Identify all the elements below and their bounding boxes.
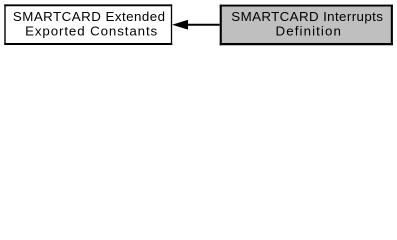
N1 left border bbox=[220, 5, 222, 46]
N2 top border bbox=[4, 4, 172, 6]
edge arrowhead (points left at node N2) bbox=[174, 21, 188, 29]
N1 top border bbox=[220, 5, 393, 7]
N2 right border bbox=[171, 4, 173, 45]
svg-text:SMARTCARD Interrupts: SMARTCARD Interrupts bbox=[231, 9, 383, 24]
N2 bottom border bbox=[4, 43, 172, 45]
background bbox=[0, 0, 397, 51]
svg-text:Definition: Definition bbox=[276, 23, 341, 38]
N2 left border bbox=[4, 4, 6, 45]
edge N2->N1 shaft (wire) bbox=[187, 24, 220, 26]
svg-text:SMARTCARD Extended: SMARTCARD Extended bbox=[13, 9, 165, 24]
N1 right border bbox=[391, 5, 393, 46]
N1 bottom border bbox=[220, 43, 393, 45]
node N2: SMARTCARD Extended Exported Constants (white box) bbox=[4, 4, 172, 45]
svg-text:Exported Constants: Exported Constants bbox=[25, 23, 157, 38]
node N1: SMARTCARD Interrupts Definition (current node, grey box) bbox=[220, 5, 393, 46]
